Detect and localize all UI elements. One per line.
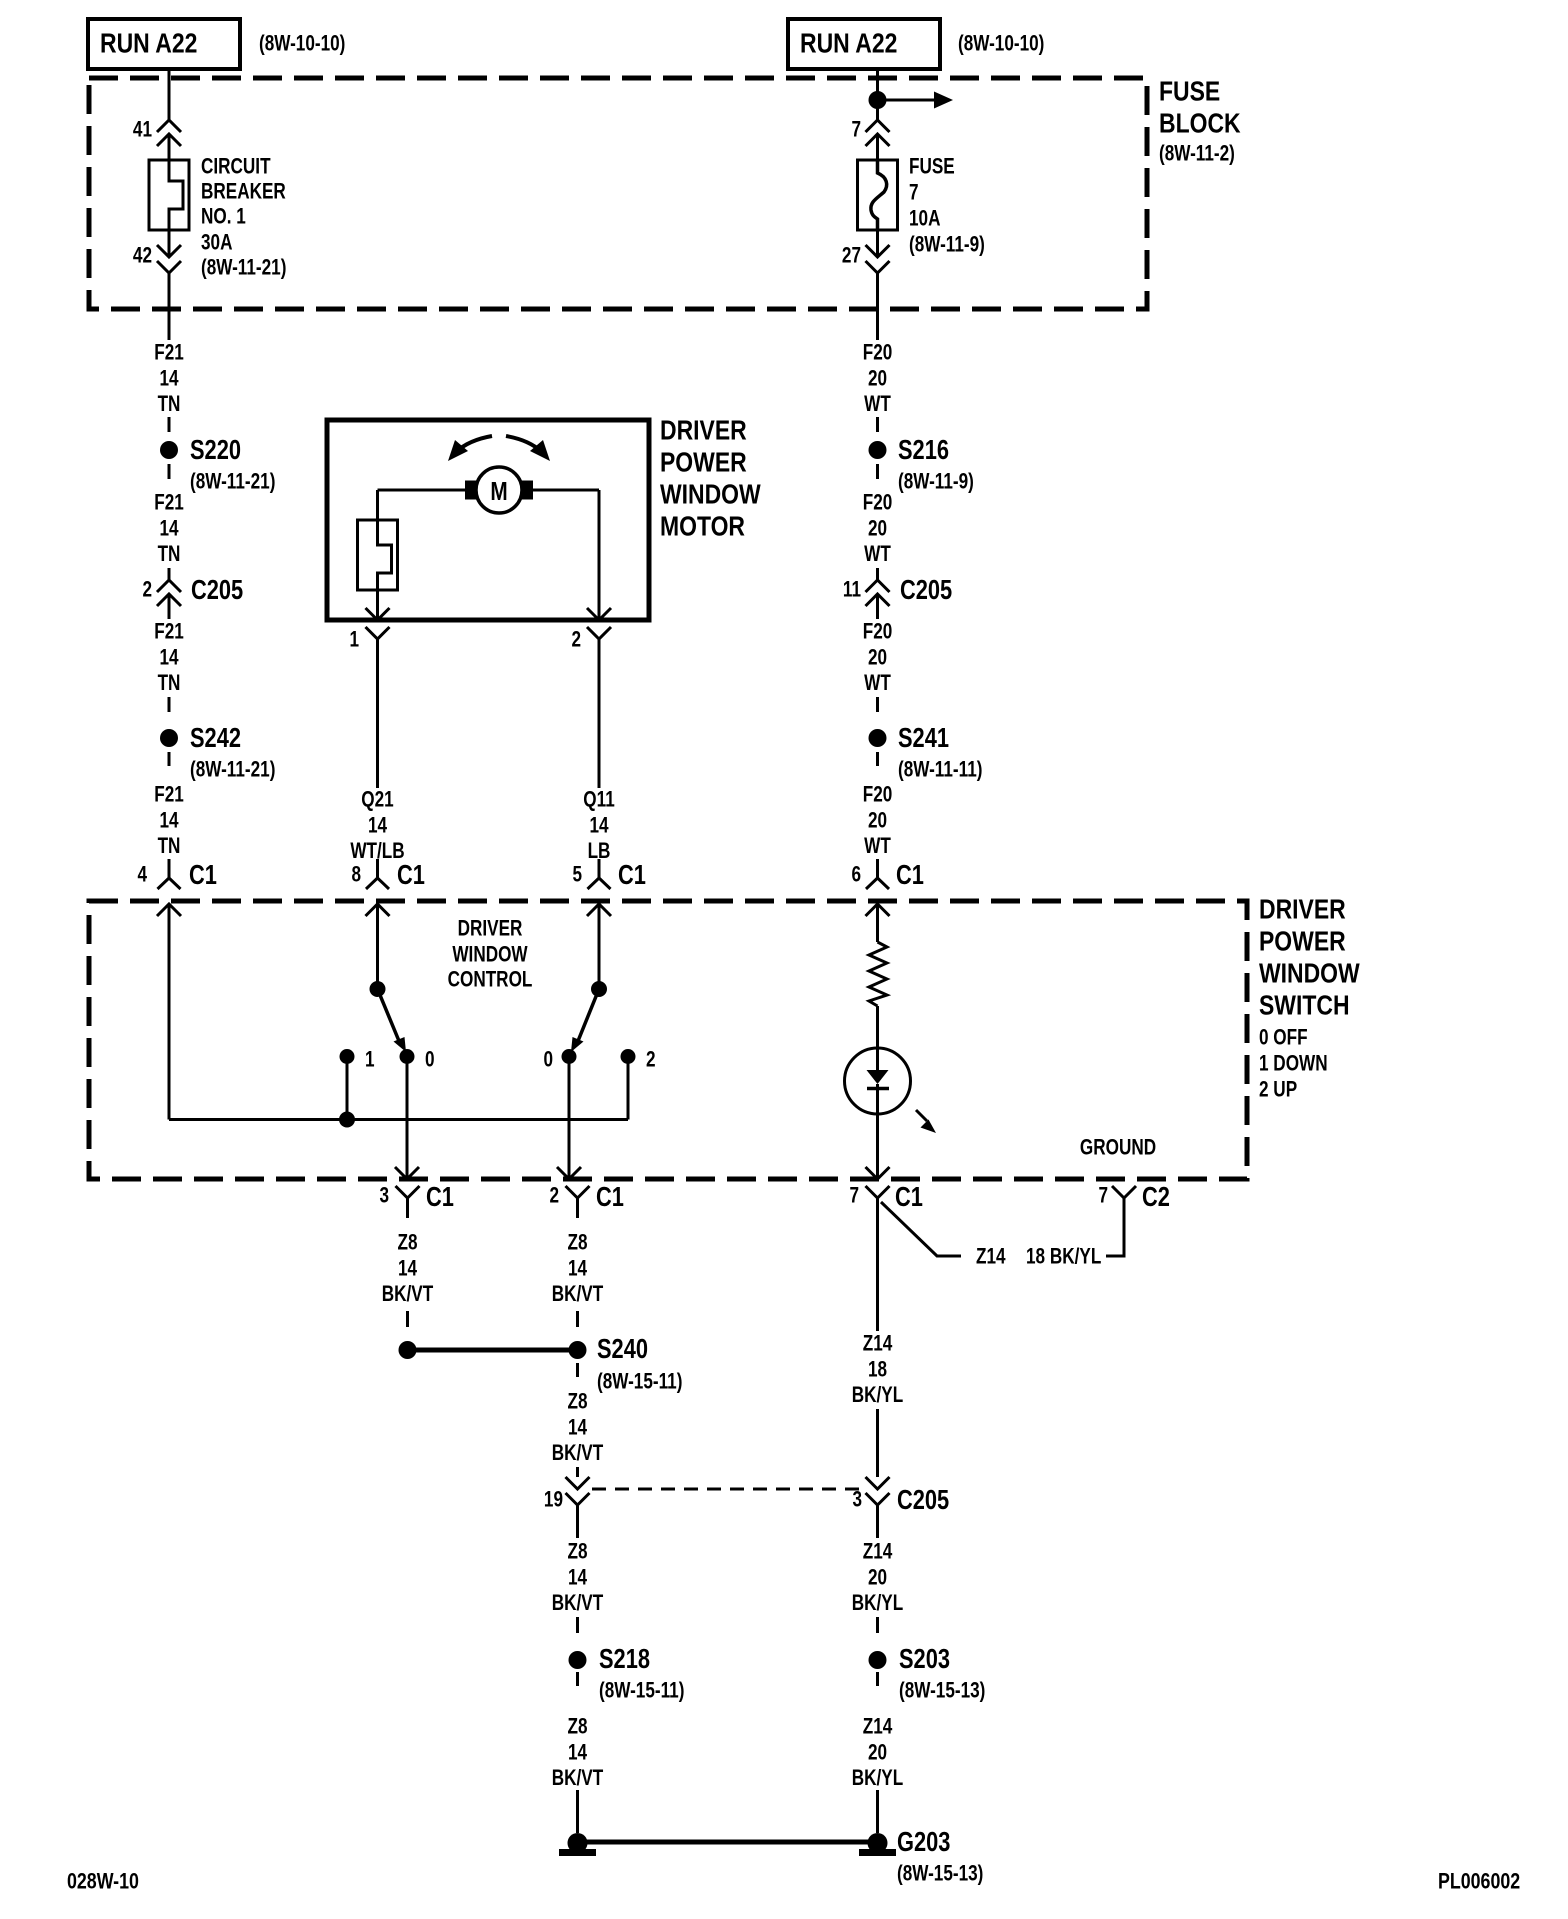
svg-text:1 DOWN: 1 DOWN	[1259, 1052, 1328, 1077]
svg-text:BREAKER: BREAKER	[201, 180, 286, 205]
svg-text:Q11: Q11	[583, 788, 615, 813]
svg-text:14: 14	[568, 1740, 587, 1765]
svg-text:(8W-11-9): (8W-11-9)	[909, 233, 985, 258]
svg-text:14: 14	[568, 1565, 587, 1590]
svg-text:WINDOW: WINDOW	[660, 480, 761, 511]
svg-text:SWITCH: SWITCH	[1259, 991, 1350, 1022]
svg-text:18: 18	[868, 1357, 887, 1382]
svg-text:WT: WT	[864, 834, 891, 859]
svg-text:(8W-10-10): (8W-10-10)	[958, 32, 1044, 57]
svg-text:11: 11	[843, 578, 861, 603]
svg-text:(8W-15-13): (8W-15-13)	[897, 1862, 983, 1887]
svg-text:14: 14	[159, 808, 178, 833]
svg-text:14: 14	[159, 366, 178, 391]
svg-text:028W-10: 028W-10	[67, 1870, 139, 1894]
svg-text:(8W-11-21): (8W-11-21)	[190, 470, 275, 495]
svg-text:(8W-11-21): (8W-11-21)	[201, 256, 286, 281]
svg-text:WT: WT	[864, 671, 891, 696]
svg-text:TN: TN	[158, 392, 181, 417]
svg-text:WINDOW: WINDOW	[452, 943, 528, 968]
svg-text:14: 14	[589, 813, 608, 838]
svg-text:1: 1	[349, 628, 359, 653]
svg-text:27: 27	[842, 244, 861, 269]
svg-text:2: 2	[142, 578, 152, 603]
svg-text:TN: TN	[158, 671, 181, 696]
svg-text:CONTROL: CONTROL	[448, 968, 533, 993]
svg-text:C1: C1	[426, 1181, 454, 1212]
svg-text:DRIVER: DRIVER	[1259, 895, 1346, 926]
svg-text:C2: C2	[1142, 1181, 1170, 1212]
svg-text:(8W-11-9): (8W-11-9)	[898, 470, 974, 495]
svg-text:Z14: Z14	[863, 1332, 893, 1357]
svg-text:14: 14	[159, 645, 178, 670]
svg-text:14: 14	[568, 1256, 587, 1281]
svg-text:S220: S220	[190, 434, 241, 465]
svg-text:Z8: Z8	[397, 1231, 417, 1256]
svg-text:NO. 1: NO. 1	[201, 205, 246, 230]
svg-text:F21: F21	[154, 620, 184, 645]
svg-text:TN: TN	[158, 542, 181, 567]
svg-text:14: 14	[398, 1256, 417, 1281]
svg-text:8: 8	[351, 863, 361, 888]
svg-text:F21: F21	[154, 783, 184, 808]
svg-text:0 OFF: 0 OFF	[1259, 1026, 1308, 1051]
svg-text:20: 20	[868, 1565, 887, 1590]
svg-text:(8W-11-21): (8W-11-21)	[190, 758, 275, 783]
svg-text:41: 41	[133, 118, 152, 143]
svg-text:(8W-11-2): (8W-11-2)	[1159, 142, 1235, 167]
svg-text:Z8: Z8	[567, 1540, 587, 1565]
svg-text:3: 3	[379, 1184, 389, 1209]
svg-text:2 UP: 2 UP	[1259, 1078, 1297, 1103]
svg-text:(8W-15-11): (8W-15-11)	[599, 1679, 684, 1704]
svg-text:30A: 30A	[201, 231, 232, 256]
svg-text:(8W-10-10): (8W-10-10)	[259, 32, 345, 57]
svg-text:1: 1	[365, 1048, 375, 1073]
svg-text:RUN A22: RUN A22	[800, 29, 897, 60]
svg-text:BLOCK: BLOCK	[1159, 109, 1241, 140]
svg-text:S240: S240	[597, 1333, 648, 1364]
svg-text:2: 2	[571, 628, 581, 653]
svg-text:7: 7	[1098, 1184, 1108, 1209]
svg-text:WINDOW: WINDOW	[1259, 959, 1360, 990]
svg-text:20: 20	[868, 645, 887, 670]
svg-text:F21: F21	[154, 491, 184, 516]
svg-text:Z14: Z14	[863, 1715, 893, 1740]
svg-text:19: 19	[544, 1488, 563, 1513]
svg-text:C1: C1	[189, 859, 217, 890]
svg-text:0: 0	[543, 1048, 553, 1073]
svg-text:5: 5	[572, 863, 582, 888]
svg-text:POWER: POWER	[660, 448, 747, 479]
svg-text:2: 2	[549, 1184, 559, 1209]
svg-text:C205: C205	[897, 1484, 949, 1515]
svg-text:(8W-15-13): (8W-15-13)	[899, 1679, 985, 1704]
svg-text:BK/VT: BK/VT	[552, 1441, 603, 1466]
svg-text:20: 20	[868, 1740, 887, 1765]
svg-text:BK/YL: BK/YL	[852, 1766, 903, 1791]
svg-text:WT: WT	[864, 542, 891, 567]
svg-text:3: 3	[852, 1488, 862, 1513]
svg-text:POWER: POWER	[1259, 927, 1346, 958]
svg-text:DRIVER: DRIVER	[660, 416, 747, 447]
svg-text:4: 4	[137, 863, 147, 888]
svg-text:TN: TN	[158, 834, 181, 859]
svg-text:GROUND: GROUND	[1080, 1136, 1156, 1161]
svg-text:C1: C1	[596, 1181, 624, 1212]
svg-text:C205: C205	[900, 574, 952, 605]
svg-text:C205: C205	[191, 574, 243, 605]
svg-text:CIRCUIT: CIRCUIT	[201, 155, 271, 180]
svg-text:2: 2	[646, 1048, 656, 1073]
svg-text:Z8: Z8	[567, 1231, 587, 1256]
svg-text:C1: C1	[896, 859, 924, 890]
svg-text:M: M	[490, 477, 507, 506]
svg-text:F21: F21	[154, 341, 184, 366]
svg-text:DRIVER: DRIVER	[458, 917, 523, 942]
svg-text:PL006002: PL006002	[1438, 1870, 1520, 1894]
svg-text:F20: F20	[863, 620, 893, 645]
svg-text:BK/VT: BK/VT	[382, 1282, 433, 1307]
svg-text:F20: F20	[863, 783, 893, 808]
svg-text:7: 7	[909, 181, 919, 206]
svg-text:14: 14	[159, 516, 178, 541]
svg-text:(8W-15-11): (8W-15-11)	[597, 1370, 682, 1395]
svg-text:F20: F20	[863, 341, 893, 366]
svg-text:10A: 10A	[909, 207, 940, 232]
svg-text:(8W-11-11): (8W-11-11)	[898, 758, 982, 783]
svg-text:F20: F20	[863, 491, 893, 516]
svg-text:20: 20	[868, 516, 887, 541]
svg-text:7: 7	[851, 118, 861, 143]
svg-text:FUSE: FUSE	[909, 155, 955, 180]
svg-text:S241: S241	[898, 722, 949, 753]
svg-text:G203: G203	[897, 1826, 950, 1857]
svg-text:S216: S216	[898, 434, 949, 465]
svg-text:BK/VT: BK/VT	[552, 1591, 603, 1616]
svg-text:WT: WT	[864, 392, 891, 417]
svg-text:20: 20	[868, 366, 887, 391]
svg-text:20: 20	[868, 808, 887, 833]
svg-text:BK/VT: BK/VT	[552, 1766, 603, 1791]
svg-text:C1: C1	[397, 859, 425, 890]
svg-text:S242: S242	[190, 722, 241, 753]
svg-text:14: 14	[368, 813, 387, 838]
svg-text:42: 42	[133, 244, 152, 269]
svg-text:0: 0	[425, 1048, 435, 1073]
svg-text:BK/YL: BK/YL	[852, 1591, 903, 1616]
svg-text:FUSE: FUSE	[1159, 77, 1220, 108]
svg-text:Z14: Z14	[863, 1540, 893, 1565]
svg-text:RUN A22: RUN A22	[100, 29, 197, 60]
svg-text:6: 6	[851, 863, 861, 888]
svg-text:Q21: Q21	[361, 788, 393, 813]
svg-text:BK/YL: BK/YL	[852, 1383, 903, 1408]
svg-text:Z8: Z8	[567, 1715, 587, 1740]
svg-text:MOTOR: MOTOR	[660, 512, 745, 543]
svg-text:Z8: Z8	[567, 1390, 587, 1415]
svg-text:S203: S203	[899, 1643, 950, 1674]
svg-text:7: 7	[849, 1184, 859, 1209]
svg-text:S218: S218	[599, 1643, 650, 1674]
svg-text:14: 14	[568, 1415, 587, 1440]
svg-text:C1: C1	[895, 1181, 923, 1212]
svg-text:C1: C1	[618, 859, 646, 890]
svg-text:Z14: Z14	[976, 1245, 1006, 1270]
svg-text:BK/VT: BK/VT	[552, 1282, 603, 1307]
svg-text:18 BK/YL: 18 BK/YL	[1026, 1245, 1101, 1270]
